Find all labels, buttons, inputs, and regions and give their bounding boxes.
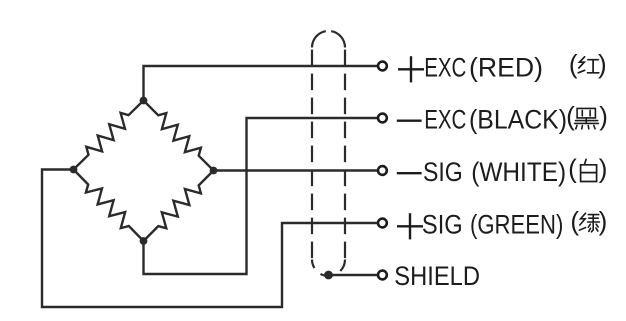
hanzi 绿	[579, 213, 599, 232]
svg-text:): )	[598, 49, 607, 79]
label -SIG sign	[397, 172, 422, 174]
svg-text:(RED): (RED)	[469, 53, 543, 83]
hanzi 红	[578, 57, 599, 73]
svg-text:EXC: EXC	[424, 105, 466, 135]
terminal -SIG	[378, 166, 387, 175]
wire SHIELD	[329, 274, 379, 276]
wire +SIG (bridge left node to terminal)	[42, 170, 378, 308]
cable shield outline (dashed stadium)	[312, 31, 345, 276]
svg-text:(: (	[566, 101, 575, 131]
terminal +SIG	[378, 219, 387, 228]
hanzi 白	[581, 159, 597, 181]
hanzi 黑	[575, 108, 599, 128]
label +SIG sign	[397, 213, 423, 239]
resistor R4 (bridge bottom-right arm)	[144, 171, 214, 242]
svg-text:(: (	[570, 206, 579, 236]
resistor R2 (bridge top-right arm)	[144, 101, 214, 171]
svg-text:(: (	[568, 154, 577, 184]
svg-text:SIG: SIG	[422, 210, 463, 240]
resistor R1 (bridge left-top arm)	[74, 101, 144, 170]
node: bridge left junction	[70, 166, 78, 174]
terminal -EXC	[378, 114, 387, 123]
node: bridge top junction	[140, 97, 148, 105]
node: shield tap junction	[324, 271, 333, 280]
svg-text:(BLACK): (BLACK)	[469, 105, 567, 135]
svg-text:): )	[599, 101, 608, 131]
wire -EXC (bridge bottom node to terminal)	[144, 118, 379, 274]
svg-text:SIG: SIG	[423, 157, 463, 187]
terminal +EXC	[378, 62, 387, 71]
svg-text:SHIELD: SHIELD	[394, 261, 480, 291]
wire +EXC (bridge top node to terminal)	[144, 66, 379, 101]
svg-text:EXC: EXC	[424, 53, 466, 83]
svg-text:): )	[599, 154, 608, 184]
svg-text:(GREEN): (GREEN)	[470, 210, 563, 240]
svg-text:(: (	[569, 49, 578, 79]
node: bridge right junction	[210, 167, 218, 175]
resistor R3 (bridge left-bottom arm)	[74, 170, 144, 242]
svg-text:): )	[599, 206, 608, 236]
terminal SHIELD	[378, 271, 387, 280]
node: bridge bottom junction	[140, 237, 148, 245]
wire -SIG (bridge right node to terminal)	[214, 169, 379, 171]
label -EXC sign	[397, 119, 422, 121]
label +EXC sign	[398, 56, 424, 82]
svg-text:(WHITE): (WHITE)	[471, 157, 566, 187]
